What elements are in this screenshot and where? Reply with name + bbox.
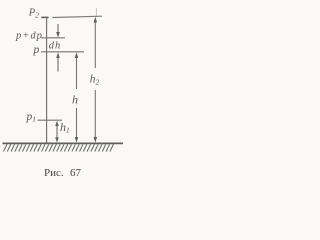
main column line	[46, 17, 48, 143]
p1 level line	[38, 119, 63, 121]
dh lower outside arrow (up)	[56, 52, 60, 71]
dh upper outside arrow (down)	[56, 24, 60, 38]
small end tick above top line at h2	[95, 8, 97, 16]
ground hatching	[4, 144, 114, 151]
ground line	[3, 142, 124, 144]
top tick at P2 level	[41, 16, 48, 18]
svg-text:p: p	[33, 44, 40, 56]
svg-text:p+dp: p+dp	[15, 30, 43, 41]
svg-text:67: 67	[70, 167, 82, 179]
h2 dimension line upper part with up arrow	[94, 17, 98, 68]
p level line	[41, 51, 84, 53]
p+dp level line	[41, 37, 65, 39]
h2 dimension line lower part with down arrow	[94, 90, 98, 143]
svg-text:dh: dh	[49, 40, 62, 51]
svg-text:h: h	[72, 93, 78, 107]
top horizontal reference line (P2 level)	[52, 16, 102, 17]
h1 dimension line with up and down arrows	[55, 121, 59, 143]
h dimension line upper part with up arrow	[75, 52, 79, 89]
h dimension line lower part with down arrow	[75, 108, 79, 143]
svg-text:Рис.: Рис.	[44, 167, 64, 179]
